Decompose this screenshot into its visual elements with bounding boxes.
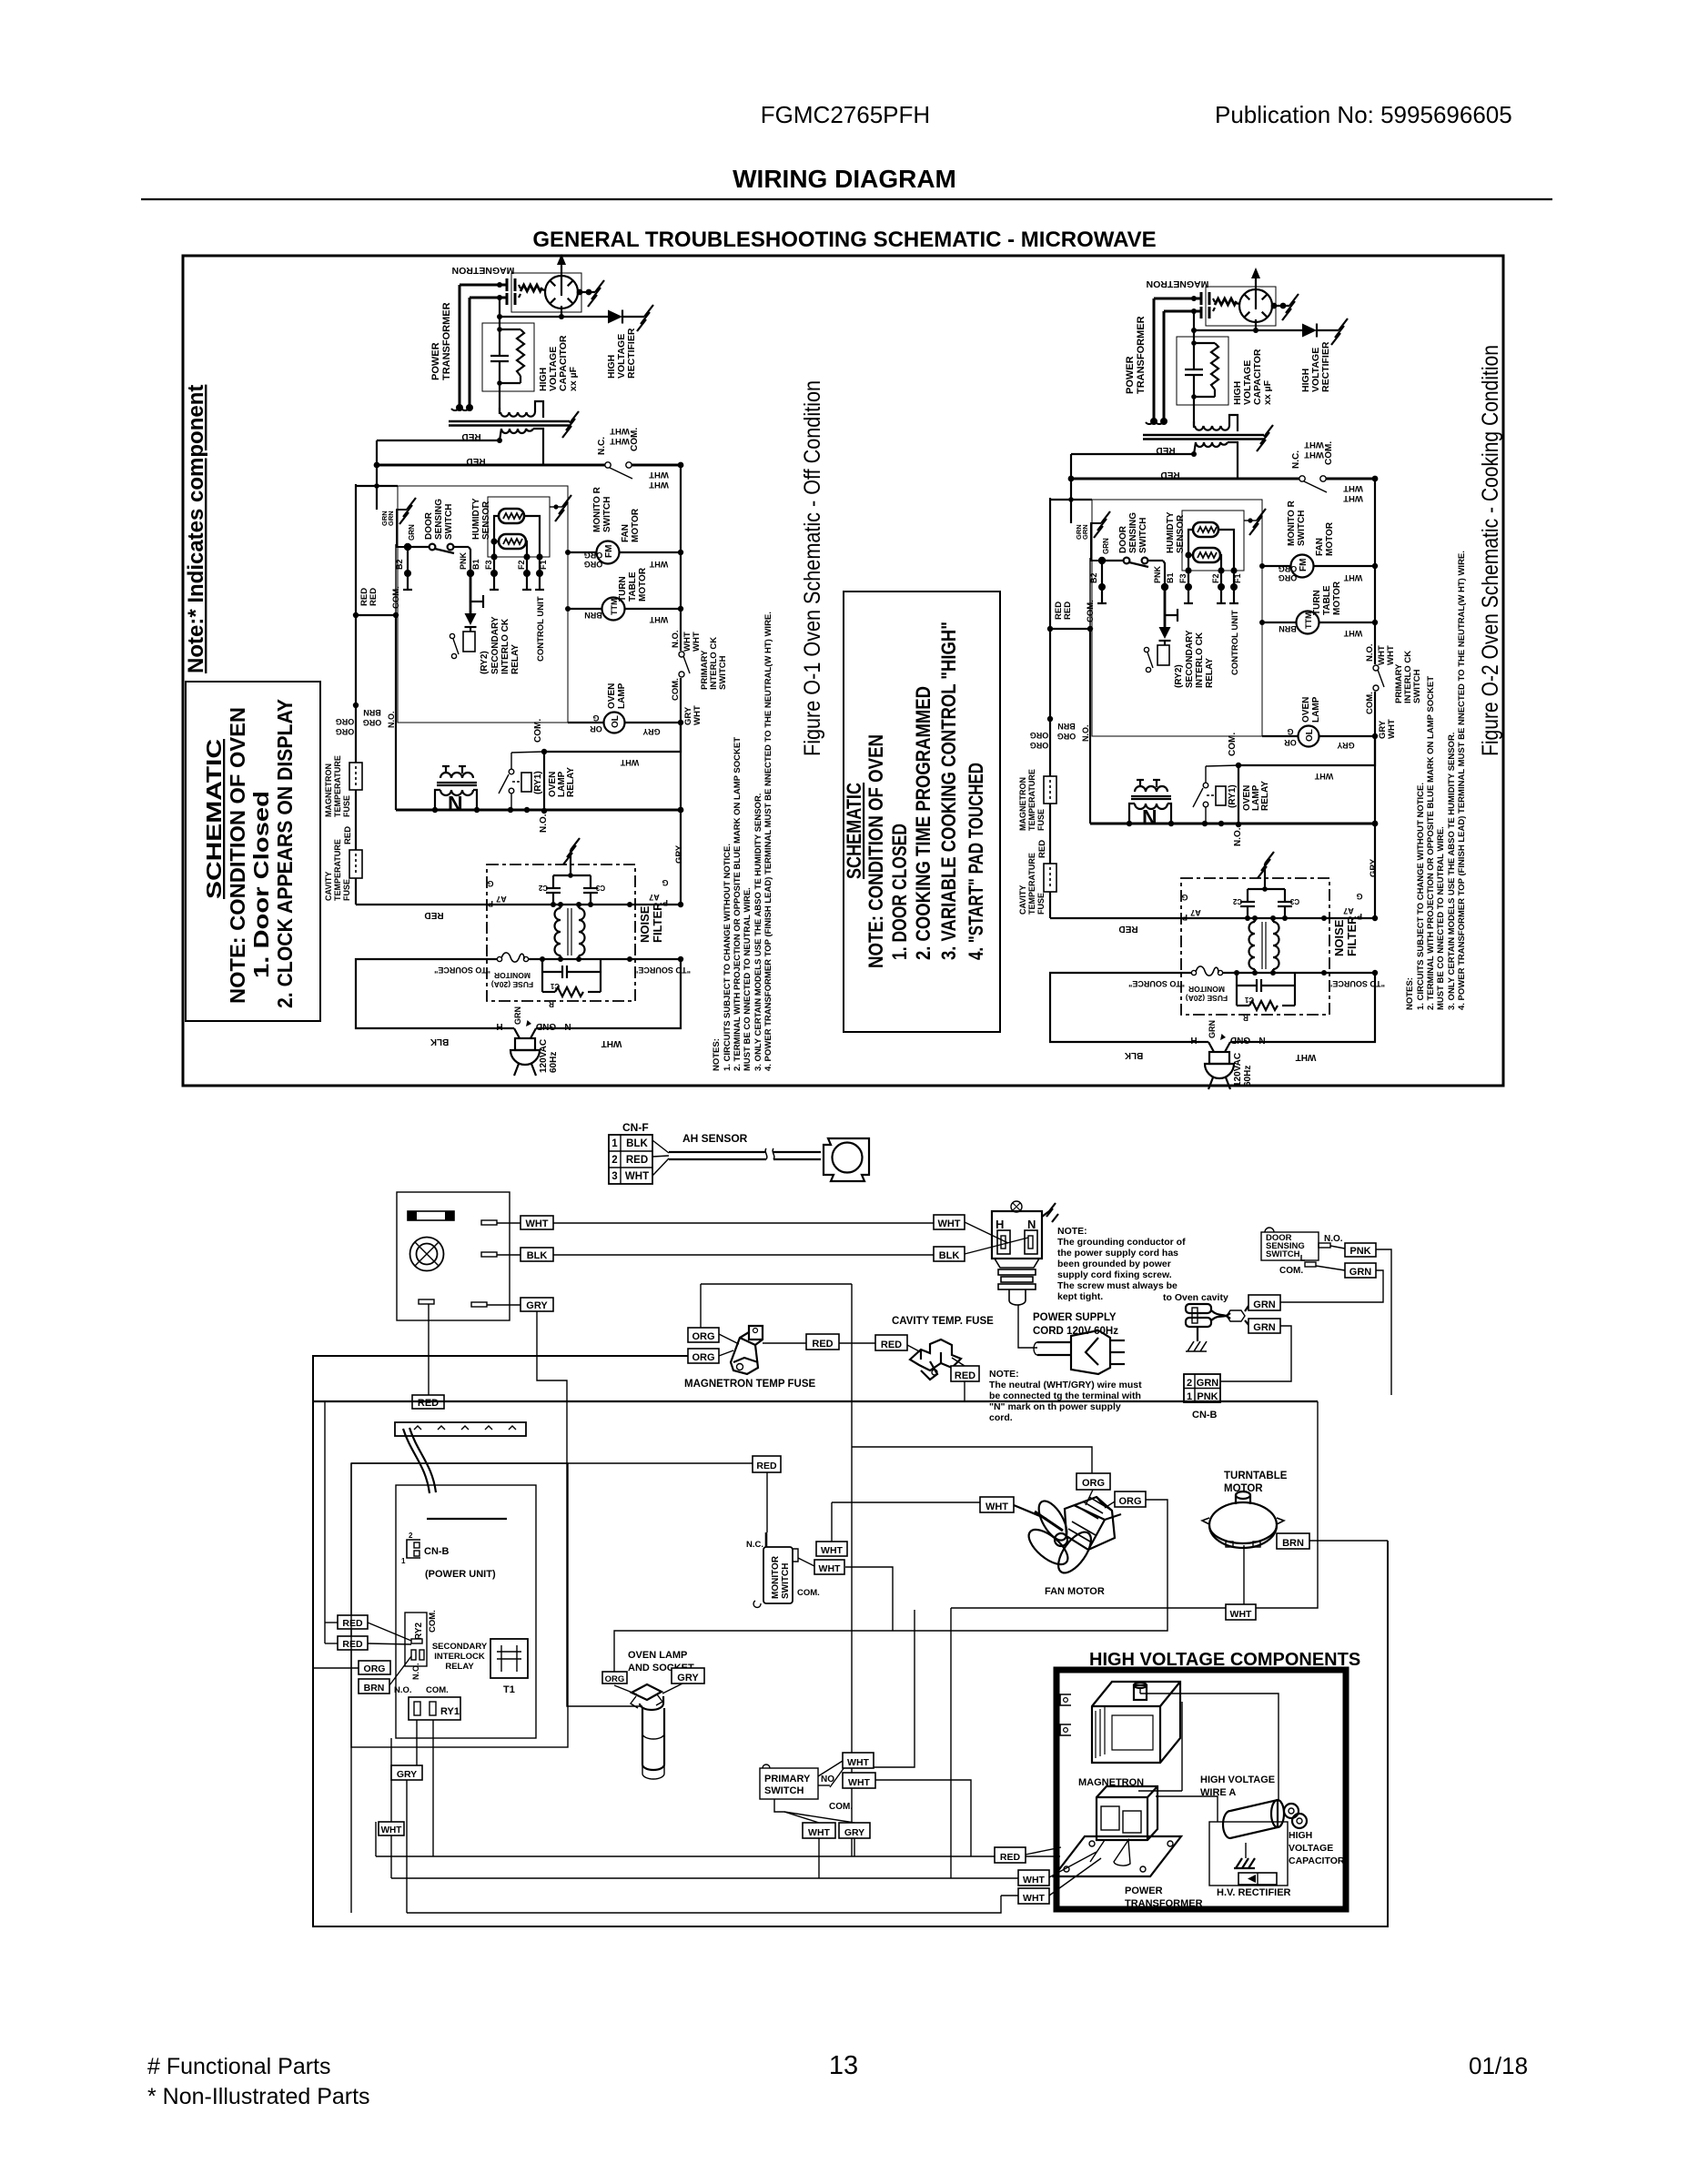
wire label RED xyxy=(806,1334,839,1350)
membrane key strip xyxy=(395,1422,526,1436)
power transformer xyxy=(449,401,579,465)
wire label GRY xyxy=(391,1765,422,1780)
note box off-condition xyxy=(186,682,320,1021)
svg-text:N.O.: N.O. xyxy=(411,1663,420,1680)
noise filter bottom wire with monitor fuse xyxy=(417,953,681,962)
wire label WHT (hv1) xyxy=(1018,1870,1049,1886)
svg-text:GRY: GRY xyxy=(397,1769,417,1780)
svg-text:RED: RED xyxy=(466,456,485,466)
svg-text:N.O.: N.O. xyxy=(387,711,396,728)
svg-text:COM.: COM. xyxy=(1279,1266,1303,1276)
svg-text:GRN: GRN xyxy=(513,1006,522,1025)
svg-text:WHT: WHT xyxy=(381,1825,402,1835)
svg-text:POWER SUPPLY: POWER SUPPLY xyxy=(1033,1312,1117,1323)
svg-text:RED: RED xyxy=(955,1370,975,1381)
svg-text:BRN: BRN xyxy=(584,611,602,620)
oven lamp and socket xyxy=(631,1684,664,1779)
svg-text:GRY: GRY xyxy=(526,1300,548,1311)
svg-text:SECONDARY: SECONDARY xyxy=(432,1642,488,1652)
svg-text:RELAY: RELAY xyxy=(566,767,576,797)
svg-text:4. "START" PAD TOUCHED: 4. "START" PAD TOUCHED xyxy=(965,763,987,960)
svg-text:MONITOR: MONITOR xyxy=(494,971,531,980)
noise filter ground xyxy=(553,838,591,875)
transformer T1 xyxy=(490,1639,528,1678)
oven schematic cooking-condition (reuse) xyxy=(1018,268,1422,1089)
capacitor C2 xyxy=(546,875,561,905)
power plug xyxy=(510,1012,540,1076)
svg-text:2: 2 xyxy=(612,1155,617,1166)
svg-text:RED: RED xyxy=(626,1155,648,1166)
svg-text:WHT: WHT xyxy=(1023,1875,1045,1886)
svg-text:1. DOOR CLOSED: 1. DOOR CLOSED xyxy=(888,824,911,960)
svg-text:* Non-Illustrated Parts: * Non-Illustrated Parts xyxy=(147,2084,370,2109)
svg-text:ORG: ORG xyxy=(584,560,603,569)
svg-text:HIGH VOLTAGE: HIGH VOLTAGE xyxy=(1200,1774,1275,1785)
svg-text:GRY: GRY xyxy=(844,1827,864,1838)
humidity sensor label xyxy=(471,498,491,540)
svg-text:N.O.: N.O. xyxy=(671,630,681,648)
svg-text:P: P xyxy=(662,898,668,907)
monitor switch contacts xyxy=(605,462,632,479)
svg-text:INTERLOCK: INTERLOCK xyxy=(434,1652,485,1662)
high voltage capacitor label xyxy=(538,335,579,391)
svg-text:GRN: GRN xyxy=(1253,1322,1276,1333)
svg-text:1. CIRCUITS SUBJECT TO CHANGE: 1. CIRCUITS SUBJECT TO CHANGE WITHOUT NO… xyxy=(1416,783,1426,1010)
svg-text:WHT: WHT xyxy=(692,632,702,652)
right trunk wire xyxy=(680,465,682,810)
svg-text:TEMPERATURE: TEMPERATURE xyxy=(333,755,342,817)
svg-text:FAN: FAN xyxy=(621,524,631,542)
socket ground xyxy=(1042,1203,1058,1222)
svg-text:CAVITY TEMP. FUSE: CAVITY TEMP. FUSE xyxy=(892,1316,994,1327)
svg-text:2: 2 xyxy=(1187,1378,1192,1389)
svg-text:A7: A7 xyxy=(496,895,507,904)
svg-text:RED: RED xyxy=(343,826,353,844)
membrane ribbon cable xyxy=(403,1428,436,1493)
svg-text:GRY: GRY xyxy=(674,844,684,864)
svg-text:N.O.: N.O. xyxy=(539,814,549,833)
svg-text:13: 13 xyxy=(829,2051,858,2080)
plug labels xyxy=(430,1006,622,1073)
monitor fuse label xyxy=(491,971,533,989)
nodes F3 F2 F1 xyxy=(490,516,544,590)
svg-text:TABLE: TABLE xyxy=(628,571,638,602)
svg-text:SWITCH: SWITCH xyxy=(444,504,454,540)
wire label RED (hv) xyxy=(995,1847,1026,1863)
svg-text:INTERLO CK: INTERLO CK xyxy=(500,618,510,674)
high voltage components box xyxy=(1056,1670,1346,1909)
interlock diode xyxy=(465,573,484,632)
svg-text:COM.: COM. xyxy=(671,678,681,701)
door sensing switch xyxy=(408,544,470,573)
svg-text:the power supply cord has: the power supply cord has xyxy=(1057,1248,1178,1259)
svg-text:LAMP: LAMP xyxy=(617,682,627,709)
svg-text:HUMIDTY: HUMIDTY xyxy=(471,498,481,540)
svg-text:P: P xyxy=(488,899,493,908)
primary interlock switch labels xyxy=(671,630,728,725)
neutral note xyxy=(989,1369,1142,1423)
svg-text:MOTOR: MOTOR xyxy=(638,567,648,602)
svg-text:WHT: WHT xyxy=(601,1038,622,1048)
note box cooking-condition xyxy=(843,591,1000,1032)
svg-text:NOTES:: NOTES: xyxy=(712,1038,722,1071)
svg-text:Figure O-1 Oven Schematic - Of: Figure O-1 Oven Schematic - Off Conditio… xyxy=(800,380,825,756)
magnetron label xyxy=(452,265,515,276)
svg-text:F2: F2 xyxy=(517,560,526,570)
svg-text:The grounding conductor of: The grounding conductor of xyxy=(1057,1237,1186,1248)
wire label RED (trunk) xyxy=(343,826,353,844)
wire label ORG (fan) xyxy=(1076,1473,1110,1490)
oven lamp relay RY1 xyxy=(521,773,531,792)
svg-text:"N" mark on th power supply: "N" mark on th power supply xyxy=(989,1401,1121,1412)
svg-text:NOTE: CONDITION OF OVEN: NOTE: CONDITION OF OVEN xyxy=(864,734,887,968)
wire label BRN xyxy=(359,1679,389,1694)
wire label GRN xyxy=(1248,1319,1280,1333)
high voltage wires xyxy=(1138,1689,1279,1822)
oven lamp xyxy=(568,713,681,733)
svg-text:WHT: WHT xyxy=(610,426,630,436)
svg-text:COM.: COM. xyxy=(428,1610,438,1633)
svg-text:MAGNETRON: MAGNETRON xyxy=(452,265,515,276)
wire label RED (monitor) xyxy=(753,1456,781,1472)
svg-text:2. COOKING TIME PROGRAMMED: 2. COOKING TIME PROGRAMMED xyxy=(912,686,935,960)
svg-text:RED: RED xyxy=(424,910,443,920)
turn table motor xyxy=(568,598,681,621)
oven lamp labels xyxy=(607,682,627,709)
svg-text:FUSE: FUSE xyxy=(342,879,351,901)
svg-text:(RY2): (RY2) xyxy=(480,651,490,674)
humidity sensor ground xyxy=(550,495,571,521)
wire labels WHT WHT xyxy=(610,426,669,490)
wire label GRN xyxy=(1248,1295,1280,1310)
svg-text:R: R xyxy=(549,1000,554,1008)
svg-text:been grounded by power: been grounded by power xyxy=(1057,1259,1171,1269)
socket wires xyxy=(965,1222,1028,1254)
turntable motor xyxy=(1202,1491,1284,1548)
wire label GRY xyxy=(521,1298,553,1311)
wire label ORG xyxy=(359,1661,390,1674)
svg-text:POWER: POWER xyxy=(1125,1886,1163,1896)
oven lamp relay labels xyxy=(533,719,576,833)
monitor switch labels xyxy=(592,428,640,532)
svg-text:MUST BE CO NNECTED TO NEUTRAL: MUST BE CO NNECTED TO NEUTRAL WIRE. xyxy=(743,887,753,1071)
wire label WHT right xyxy=(934,1215,965,1229)
svg-text:1. CIRCUITS SUBJECT TO CHANGE: 1. CIRCUITS SUBJECT TO CHANGE WITHOUT NO… xyxy=(723,844,733,1071)
svg-text:FM: FM xyxy=(604,545,614,558)
svg-text:ORG: ORG xyxy=(336,727,355,736)
troubleshooting outer box xyxy=(183,256,1503,1086)
svg-text:SCHEMATIC: SCHEMATIC xyxy=(202,739,226,899)
svg-text:TRANSFORMER: TRANSFORMER xyxy=(1125,1898,1203,1909)
door sensing switch label xyxy=(424,499,454,540)
capacitor C1 and resistor R xyxy=(542,959,601,996)
svg-text:N: N xyxy=(1027,1218,1036,1231)
svg-text:A7: A7 xyxy=(649,893,660,902)
humidity sensor box xyxy=(488,497,550,557)
control unit label xyxy=(536,596,546,662)
wire label GRN xyxy=(1345,1263,1376,1278)
svg-text:ORG: ORG xyxy=(692,1352,714,1363)
svg-text:60Hz: 60Hz xyxy=(549,1052,559,1073)
svg-text:MOTOR: MOTOR xyxy=(1224,1483,1263,1494)
svg-text:MAGNETRON: MAGNETRON xyxy=(324,763,333,817)
svg-text:PNK: PNK xyxy=(459,551,468,570)
door sensing switch xyxy=(1261,1232,1319,1260)
panel wires xyxy=(487,1223,934,1305)
fan wires xyxy=(1086,1490,1115,1508)
wire label WHT (hv2) xyxy=(1018,1888,1049,1904)
noise filter top wire xyxy=(356,904,681,905)
svg-text:WHT: WHT xyxy=(620,758,639,767)
svg-text:COM.: COM. xyxy=(630,428,640,451)
svg-text:COM.: COM. xyxy=(533,719,543,743)
svg-text:MOTOR: MOTOR xyxy=(631,508,641,542)
magnetron temperature fuse xyxy=(349,763,362,790)
magnetron temperature fuse label xyxy=(324,755,351,817)
AH sensor cable xyxy=(669,1148,821,1159)
svg-text:TURNTABLE: TURNTABLE xyxy=(1224,1471,1288,1481)
svg-text:SWITCH: SWITCH xyxy=(781,1563,791,1599)
trunk wire labels ORG BRN xyxy=(336,708,396,736)
svg-text:OL: OL xyxy=(611,715,621,728)
svg-text:OVEN: OVEN xyxy=(607,683,617,709)
svg-text:3. VARIABLE COOKING CONTROL "H: 3. VARIABLE COOKING CONTROL "HIGH" xyxy=(937,622,960,960)
svg-text:ORG: ORG xyxy=(364,1663,386,1674)
svg-text:N: N xyxy=(448,792,463,815)
svg-text:VOLTAGE: VOLTAGE xyxy=(1289,1843,1333,1854)
svg-text:C2: C2 xyxy=(538,884,548,892)
svg-text:ORG: ORG xyxy=(336,717,355,726)
svg-text:WHT: WHT xyxy=(821,1545,843,1556)
svg-text:CN-F: CN-F xyxy=(622,1121,649,1134)
svg-text:ORG: ORG xyxy=(1082,1478,1105,1489)
svg-text:N.O.: N.O. xyxy=(394,1685,412,1695)
svg-text:N: N xyxy=(564,1021,571,1031)
svg-text:COM.: COM. xyxy=(829,1802,853,1812)
wire label WHT (turntable) xyxy=(1226,1604,1256,1620)
svg-text:RED: RED xyxy=(881,1340,902,1350)
svg-text:NOTE: CONDITION OF OVEN: NOTE: CONDITION OF OVEN xyxy=(226,707,249,1004)
left trunk wire xyxy=(355,484,357,763)
svg-text:supply cord fixing screw.: supply cord fixing screw. xyxy=(1057,1269,1172,1280)
secondary interlock relay RY2 xyxy=(463,632,475,652)
svg-text:BLK: BLK xyxy=(430,1036,449,1046)
svg-text:(POWER UNIT): (POWER UNIT) xyxy=(425,1569,496,1580)
svg-text:be connected tg the terminal w: be connected tg the terminal with xyxy=(989,1390,1141,1401)
svg-text:N.C.: N.C. xyxy=(597,437,607,455)
svg-text:01/18: 01/18 xyxy=(1469,2052,1528,2079)
high voltage capacitor box xyxy=(482,323,534,391)
svg-text:G: G xyxy=(487,879,493,888)
power unit feed wires xyxy=(313,1401,411,1685)
figure O-2 caption xyxy=(1478,345,1503,756)
wire label ORG xyxy=(688,1349,719,1363)
svg-text:# Functional Parts: # Functional Parts xyxy=(147,2054,331,2079)
svg-text:WHT: WHT xyxy=(649,480,669,490)
svg-text:G: G xyxy=(662,878,668,887)
filament feed wires xyxy=(451,285,507,410)
svg-text:NOTE:: NOTE: xyxy=(1057,1226,1087,1237)
svg-text:2. CLOCK APPEARS ON DISPLAY: 2. CLOCK APPEARS ON DISPLAY xyxy=(273,699,297,1008)
oven lamp return wire xyxy=(544,723,681,811)
wire label WHT (monitor) xyxy=(816,1542,847,1556)
wire label WHT xyxy=(379,1822,404,1835)
svg-text:GRN: GRN xyxy=(387,511,395,526)
svg-text:xx µF: xx µF xyxy=(568,366,579,391)
svg-text:1: 1 xyxy=(401,1557,406,1565)
secondary interlock relay labels xyxy=(480,616,521,674)
svg-text:kept tight.: kept tight. xyxy=(1057,1291,1103,1302)
svg-text:Note:* Indicates component: Note:* Indicates component xyxy=(184,385,208,673)
svg-text:to Oven cavity: to Oven cavity xyxy=(1163,1292,1228,1303)
wire label GRY (com) xyxy=(839,1823,870,1838)
svg-text:2: 2 xyxy=(409,1532,413,1540)
grounding note xyxy=(1057,1226,1186,1302)
svg-text:WIRING DIAGRAM: WIRING DIAGRAM xyxy=(733,165,956,193)
wire label WHT (primary1) xyxy=(843,1753,874,1768)
svg-text:cord.: cord. xyxy=(989,1412,1013,1423)
bus wire main xyxy=(377,464,605,467)
svg-text:CN-B: CN-B xyxy=(424,1546,450,1557)
svg-text:1: 1 xyxy=(612,1138,618,1149)
wire label BRN xyxy=(1277,1533,1309,1549)
svg-text:FAN MOTOR: FAN MOTOR xyxy=(1045,1586,1105,1597)
node B1 xyxy=(467,570,474,577)
svg-text:C3: C3 xyxy=(595,884,605,892)
noise filter pin labels xyxy=(487,878,668,908)
svg-text:RED: RED xyxy=(342,1618,363,1629)
power unit outer box xyxy=(351,1463,568,1747)
svg-text:WHT: WHT xyxy=(937,1218,960,1229)
svg-text:SENSOR: SENSOR xyxy=(481,500,491,540)
relay RY2 xyxy=(405,1613,427,1666)
svg-text:SWITCH: SWITCH xyxy=(764,1785,804,1796)
svg-text:FUSE: FUSE xyxy=(342,795,351,817)
svg-text:BRN: BRN xyxy=(363,708,381,717)
line filter choke xyxy=(555,905,585,959)
svg-text:NOISE: NOISE xyxy=(638,905,652,943)
svg-text:NOTES:: NOTES: xyxy=(1405,977,1415,1010)
power supply plug xyxy=(1034,1330,1125,1374)
power unit board xyxy=(396,1485,536,1738)
svg-text:TRANSFORMER: TRANSFORMER xyxy=(441,302,452,380)
wire label GRY (lamp) xyxy=(672,1668,704,1683)
svg-text:3: 3 xyxy=(612,1171,617,1182)
svg-text:OVEN LAMP: OVEN LAMP xyxy=(628,1650,687,1661)
svg-text:SECONDARY: SECONDARY xyxy=(490,616,500,674)
svg-text:G: G xyxy=(592,713,599,723)
noise filter label xyxy=(638,902,664,943)
svg-text:RY1: RY1 xyxy=(440,1706,460,1717)
svg-text:(RY1): (RY1) xyxy=(533,771,543,794)
svg-text:C1: C1 xyxy=(550,982,560,990)
svg-text:CAVITY: CAVITY xyxy=(324,872,333,901)
svg-text:SWITCH: SWITCH xyxy=(718,655,728,690)
svg-text:NOTE:: NOTE: xyxy=(989,1369,1019,1380)
humidity sensor elements xyxy=(499,509,526,549)
door sensing switch wire labels GRN xyxy=(380,511,416,541)
high voltage rectifier diode xyxy=(500,305,653,331)
magnetron filament terminals xyxy=(507,278,546,305)
enclosure wires xyxy=(313,1284,1388,1926)
svg-text:HIGH: HIGH xyxy=(1289,1830,1312,1841)
svg-text:GRY: GRY xyxy=(677,1673,699,1683)
svg-text:BRN: BRN xyxy=(364,1683,385,1694)
svg-text:BRN: BRN xyxy=(1282,1538,1304,1549)
right trunk lower xyxy=(680,810,682,905)
connector CN-B xyxy=(1184,1374,1220,1402)
svg-text:WHT: WHT xyxy=(649,470,669,480)
svg-text:T1: T1 xyxy=(503,1684,515,1695)
svg-text:RED: RED xyxy=(756,1461,777,1471)
wire label RED (transformer) xyxy=(461,431,480,441)
svg-text:COM.: COM. xyxy=(426,1685,449,1695)
svg-text:RED: RED xyxy=(418,1398,439,1409)
secondary interlock relay label xyxy=(432,1642,488,1672)
control unit box xyxy=(398,486,568,723)
primary switch xyxy=(760,1768,818,1799)
svg-text:GENERAL TROUBLESHOOTING SCHEMA: GENERAL TROUBLESHOOTING SCHEMATIC - MICR… xyxy=(532,227,1156,252)
svg-text:F3: F3 xyxy=(484,560,493,570)
svg-text:PRIMARY: PRIMARY xyxy=(764,1774,811,1785)
oven cavity terminal xyxy=(1186,1303,1250,1327)
svg-text:OR: OR xyxy=(590,724,602,733)
low voltage transformer xyxy=(435,766,477,810)
bus wire upper xyxy=(377,440,500,441)
wire label WHT xyxy=(521,1216,553,1229)
figure O-1 caption xyxy=(800,380,825,756)
svg-text:Publication No: 5995696605: Publication No: 5995696605 xyxy=(1215,101,1512,128)
svg-text:WHT: WHT xyxy=(808,1827,830,1838)
svg-text:WHT: WHT xyxy=(610,436,630,446)
svg-text:WHT: WHT xyxy=(848,1777,870,1788)
notes block left schematic xyxy=(712,612,773,1071)
power cord wire xyxy=(1018,1305,1037,1348)
com trunk wire xyxy=(395,544,397,615)
svg-text:BLK: BLK xyxy=(527,1250,548,1261)
svg-text:BLK: BLK xyxy=(939,1250,960,1261)
lower bus wire xyxy=(396,809,681,812)
com wire labels xyxy=(359,586,401,609)
svg-text:4. POWER TRANSFORMER TOP (FINI: 4. POWER TRANSFORMER TOP (FINISH LEAD) T… xyxy=(1457,551,1467,1010)
wire label RED xyxy=(951,1366,979,1381)
magnetron ground xyxy=(577,280,604,307)
svg-text:H.V. RECTIFIER: H.V. RECTIFIER xyxy=(1217,1887,1291,1898)
svg-text:RECTIFIER: RECTIFIER xyxy=(626,328,637,379)
svg-text:3. ONLY CERTAIN MODELS USE TH: 3. ONLY CERTAIN MODELS USE THE ABSO TE H… xyxy=(1447,733,1457,1010)
magnetron box xyxy=(511,273,581,312)
svg-text:WHT: WHT xyxy=(649,615,668,624)
svg-text:RED: RED xyxy=(812,1339,833,1350)
svg-text:ORG: ORG xyxy=(605,1674,625,1684)
lamp wires xyxy=(614,1683,682,1694)
svg-text:MAGNETRON TEMP FUSE: MAGNETRON TEMP FUSE xyxy=(684,1379,816,1390)
control panel display xyxy=(408,1211,454,1220)
svg-text:MONITOR: MONITOR xyxy=(771,1555,781,1599)
svg-text:WHT: WHT xyxy=(649,560,668,569)
turn table motor labels xyxy=(618,567,648,602)
svg-text:PNK: PNK xyxy=(1349,1246,1370,1257)
svg-text:ORG: ORG xyxy=(584,551,603,560)
svg-text:COM.: COM. xyxy=(797,1588,820,1598)
svg-text:ORG: ORG xyxy=(692,1331,714,1342)
svg-text:N.C.: N.C. xyxy=(746,1540,763,1550)
fan motor xyxy=(1014,1497,1121,1578)
svg-text:MONITO R: MONITO R xyxy=(592,486,602,532)
wire label PNK xyxy=(1345,1243,1376,1257)
control panel lamp xyxy=(410,1238,444,1271)
svg-text:The neutral (WHT/GRY) wire mus: The neutral (WHT/GRY) wire must xyxy=(989,1380,1142,1390)
